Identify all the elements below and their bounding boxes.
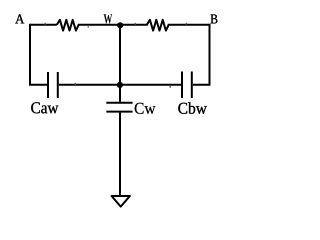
capacitor Cw value label bbox=[135, 103, 156, 114]
capacitor Caw left plate bbox=[47, 72, 49, 98]
junction dot at capacitor row bbox=[117, 82, 123, 88]
resistor R2 (between W and B) bbox=[147, 20, 169, 31]
tick mark on wire R1-W bbox=[88, 26, 89, 28]
node A label bbox=[15, 14, 24, 23]
capacitor Cbw left plate bbox=[181, 72, 183, 99]
capacitor Cbw value label bbox=[178, 102, 207, 114]
ground symbol bbox=[112, 196, 130, 207]
wire: vertical from Cw bottom plate down to ground bbox=[119, 113, 121, 196]
node W label bbox=[104, 14, 113, 23]
wire: top-left rail from A corner to resistor R1 bbox=[30, 24, 57, 26]
tick mark on wire junction-Cbw bbox=[170, 86, 171, 88]
wire: left vertical from A corner down to capacitor row bbox=[29, 24, 31, 85]
resistor R1 (between A and W) bbox=[57, 20, 79, 31]
wire: right vertical from B corner down to capacitor row bbox=[209, 24, 211, 85]
capacitor Caw right plate bbox=[57, 72, 59, 98]
wire: top-right rail from R2 to B corner bbox=[168, 24, 210, 26]
wire: capacitor row from Caw right plate to center junction bbox=[59, 84, 119, 86]
tick mark on wire R2-B bbox=[186, 23, 187, 25]
node B label bbox=[211, 14, 218, 23]
capacitor Caw value label bbox=[31, 102, 58, 113]
junction node W dot bbox=[117, 22, 123, 28]
capacitor Cbw right plate bbox=[191, 72, 193, 99]
wire: top rail from R1 to R2 through node W bbox=[78, 24, 148, 26]
capacitor Cw bottom plate bbox=[106, 111, 132, 113]
tick mark on wire Caw-junction bbox=[75, 83, 76, 85]
wire: capacitor row, Cbw right plate to right vertical bbox=[193, 84, 211, 86]
wire: center vertical from W down to capacitor row junction bbox=[119, 25, 121, 102]
tick mark on wire W-R2 bbox=[135, 23, 136, 25]
tick mark on wire A-R1 bbox=[45, 23, 46, 25]
wire: capacitor row from center junction to Cbw left plate bbox=[121, 84, 181, 86]
wire: capacitor row, left vertical corner to Caw left plate bbox=[29, 84, 47, 86]
capacitor Cw top plate bbox=[106, 102, 132, 104]
